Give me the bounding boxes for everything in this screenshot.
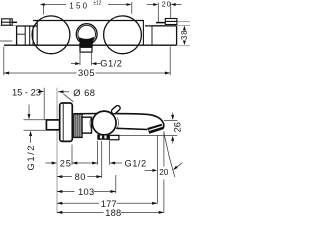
wall extension line (side view) [43,88,45,120]
dim 188 [57,211,164,213]
dim 150±12 dimension line [43,2,131,15]
svg-text:38: 38 [180,30,189,40]
svg-text:G1/2: G1/2 [100,59,122,69]
dim 177 [57,202,157,204]
dim 80 [101,141,103,178]
lip right of outlet [109,135,119,139]
knob circle (side view) [92,111,116,135]
handle nub (side view) [110,105,121,115]
svg-text:150: 150 [69,1,89,10]
body end cap right [142,21,144,46]
spout bottom edge [116,128,147,129]
svg-text:20: 20 [159,167,169,177]
extension line x=163.2 (spout end) [163,132,165,167]
fitting box left (top view) [2,19,13,25]
dim 38 arrows and text [183,26,186,46]
stub line right [156,22,165,24]
escutcheon (side view) [60,103,73,141]
svg-text:25: 25 [60,159,72,169]
ribbed block (side view) [74,114,82,137]
ribs [76,114,80,137]
left G1/2 pipe dim: bottom arrow [24,129,46,131]
dim 20 (top right) [147,3,182,23]
connector (side view) [82,117,92,133]
svg-text:80: 80 [75,172,86,182]
spout top edge [74,114,164,129]
dim 15-23 arrow [38,91,41,93]
fitting box right (top view) [165,19,177,25]
grip tip white box [80,47,92,52]
left pipe lower line [0,40,12,42]
stub line left [12,21,17,23]
G1/2 bottom arrow [111,162,122,164]
svg-text:Ø 68: Ø 68 [73,88,95,98]
dim G1/2 (top view outlet) [71,53,101,65]
dim 25 row: left arrow [46,162,52,164]
underside line / dim26 bottom extension [110,134,178,136]
main body top edge (top view) [33,20,144,22]
dim 26: top extension [164,119,178,121]
aerator block [147,124,163,134]
wall stub (side view) [46,120,59,130]
shared arrow shaft 25 / G1/2 [72,162,98,164]
dim 20 text [158,167,168,176]
svg-text:G1/2: G1/2 [125,158,147,168]
wall line right (top view, gray) [153,24,166,26]
dim 26 arrows outside [172,113,174,119]
extension lines outlet block [97,141,99,165]
escutcheon rim line [62,104,64,141]
svg-text:G1/2: G1/2 [26,144,36,171]
left G1/2 pipe dim: top arrow [24,119,46,121]
dim 20 left arrow [145,169,153,171]
dim 20 diagonal extension [164,132,175,178]
svg-text:15 - 23: 15 - 23 [12,87,41,97]
escutcheon circle left (top view) [32,16,70,54]
dim 150±12 arrowheads [40,3,132,6]
body end cap left [36,21,38,46]
knob side arcs [90,118,91,129]
svg-text:188: 188 [105,208,121,217]
extension line escutcheon right [71,145,73,165]
dim Ø68 leader [58,91,69,93]
svg-text:20: 20 [162,0,172,9]
extension line x=157.8 (spout tip) [157,135,159,203]
svg-text:103: 103 [78,187,94,197]
dim 103 [115,175,117,193]
svg-text:±12: ±12 [93,1,102,7]
handle grip dark (top view) [78,37,94,48]
escutcheon circle right (top view) [104,16,142,54]
svg-text:26: 26 [173,122,183,132]
handle knob (top view) [76,24,97,45]
union nut left (top view) [17,26,38,45]
svg-text:305: 305 [78,68,95,78]
dim 305 [4,47,170,76]
outlet block (under circle, dark) [97,134,109,139]
dim 20 right arrow (angled) [177,163,183,167]
bottom edge (top view, full) [4,44,177,46]
dim 38 gray extension lines [177,21,190,23]
narrow section right (top view) [145,26,177,45]
reference line x=56.6 (escutcheon face) [56,88,58,213]
